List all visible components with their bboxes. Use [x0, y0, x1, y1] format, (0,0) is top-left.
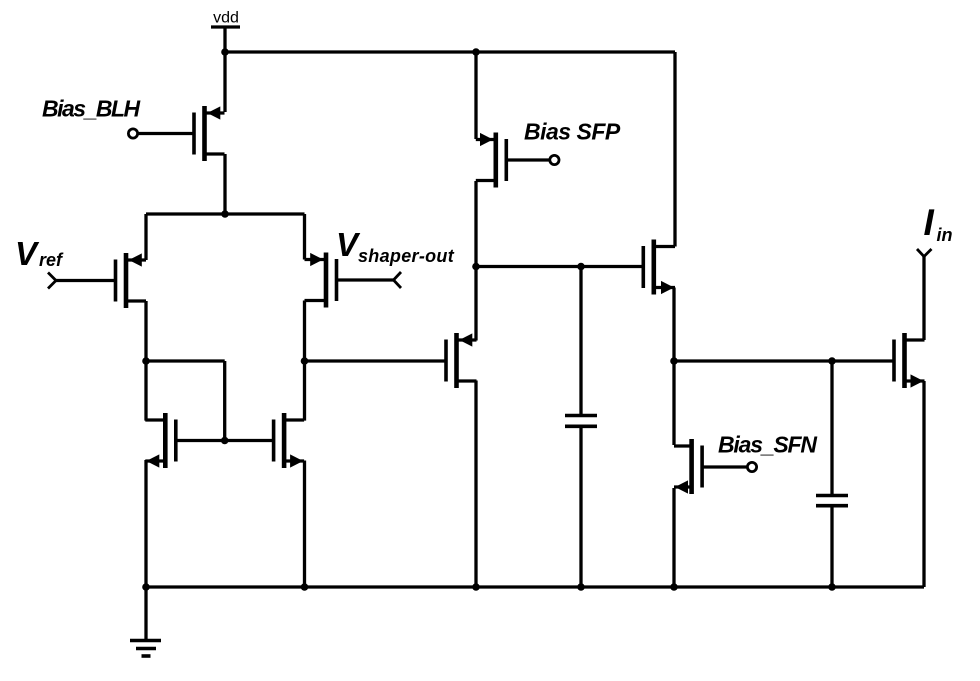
vdd supply symbol [211, 27, 240, 52]
wire C2 top lead [830, 361, 833, 496]
transistor M8 source follower NMOS [643, 240, 675, 295]
terminal V_ref input fork [48, 273, 56, 289]
capacitor C1 [565, 416, 597, 427]
terminal Bias_SFN (gate bubble) [747, 462, 756, 471]
wire V_shaper-out gate [337, 278, 394, 281]
svg-text:in: in [937, 225, 953, 245]
transistor M4 transconductor NMOS [446, 333, 477, 388]
wire M2 source down to node A [144, 301, 147, 421]
svg-text:ref: ref [39, 250, 64, 270]
wire M10 source to ground rail [922, 381, 925, 587]
junction ground rail / C2 [828, 583, 836, 591]
wire M1 drain to vdd [223, 52, 226, 112]
capacitor C2 [816, 496, 848, 506]
transistor M10 input cascode NMOS [894, 333, 925, 388]
wire M9 source to ground rail [672, 488, 675, 587]
terminal I_in fork [917, 249, 932, 257]
wire C1 top lead [579, 267, 582, 416]
wire node B to M8 gate [476, 265, 644, 268]
junction capacitor C2 tap [828, 357, 836, 365]
junction ground rail / M9 source [670, 583, 678, 591]
wire C1 bottom lead [579, 426, 582, 587]
transistor M6 mirror NMOS right [274, 413, 305, 468]
wire M7 drain from vdd rail [474, 52, 477, 139]
wire V_ref gate [56, 279, 116, 282]
transistor M1 Bias_BLH PMOS [194, 106, 225, 161]
wire diff pair tail rail [146, 212, 305, 215]
transistor M3 V_shaper-out input PMOS [305, 253, 337, 308]
wire node C to M10 gate [674, 359, 894, 362]
wire Bias_BLH gate [138, 132, 194, 135]
wire ground rail [146, 585, 924, 588]
junction node A (diff output) [142, 357, 150, 365]
svg-text:shaper-out: shaper-out [358, 246, 455, 266]
terminal Bias SFP (gate bubble) [550, 155, 559, 164]
wire node B2 to M4 gate [305, 359, 447, 362]
wire I_in to M10 drain [922, 257, 925, 341]
wire diode connection drop [223, 361, 226, 441]
terminal Bias_BLH (gate bubble) [128, 129, 137, 138]
junction mirror gates [221, 437, 229, 445]
svg-text:Bias_BLH: Bias_BLH [42, 96, 141, 122]
wire tail right drop to M3 [303, 214, 306, 260]
transistor M5 mirror NMOS left [145, 413, 176, 468]
wire M8 source down to node C [672, 288, 675, 446]
svg-text:Bias SFP: Bias SFP [524, 119, 621, 145]
junction vdd rail / M7 drain [472, 48, 480, 56]
svg-text:V: V [15, 235, 40, 272]
wire node A to diode tap [146, 359, 225, 362]
wire M7 source to node B / M4 drain [474, 181, 477, 341]
wire vdd rail right drop [673, 52, 676, 247]
svg-text:I: I [924, 202, 935, 243]
junction node B2 (diff output right) [301, 357, 309, 365]
wire M5 source to ground rail [144, 460, 147, 587]
wire tail left drop to M2 [144, 214, 147, 260]
svg-text:vdd: vdd [213, 10, 239, 27]
junction capacitor C1 tap [577, 263, 585, 271]
wire vdd rail [225, 50, 675, 53]
junction ground rail / ground stub [142, 583, 150, 591]
junction ground rail / C1 [577, 583, 585, 591]
terminal V_shaper-out input fork [394, 272, 402, 288]
junction vdd / M1 drain [221, 48, 229, 56]
wire mirror gate rail [176, 439, 274, 442]
junction ground rail / M6 source [301, 583, 309, 591]
wire M3 source down through node B2 [303, 301, 306, 421]
transistor M7 Bias SFP PMOS [476, 133, 507, 188]
ground [130, 587, 161, 656]
wire C2 bottom lead [830, 506, 833, 587]
transistor M9 Bias_SFN NMOS [674, 439, 702, 494]
wire Bias_SFN gate [702, 465, 747, 468]
wire M6 source to ground rail [303, 461, 306, 588]
transistor M2 V_ref input PMOS [116, 253, 147, 308]
svg-text:Bias_SFN: Bias_SFN [718, 432, 817, 458]
junction node C [670, 357, 678, 365]
junction ground rail / M4 source [472, 583, 480, 591]
wire Bias SFP gate [507, 158, 550, 161]
junction node B [472, 263, 480, 271]
junction diff tail node [221, 210, 229, 218]
wire M1 source to tail node [223, 154, 226, 214]
wire M4 source to ground rail [474, 381, 477, 588]
